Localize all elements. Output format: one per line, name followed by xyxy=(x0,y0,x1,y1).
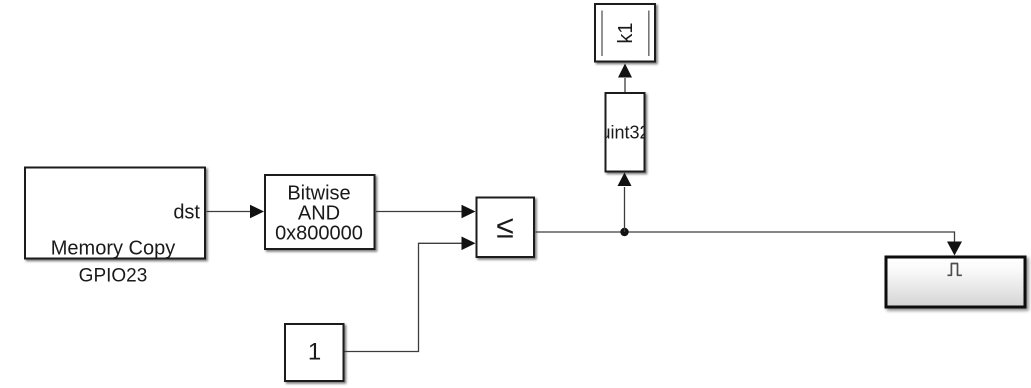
junction dot xyxy=(620,228,628,236)
block goto tag k1 xyxy=(595,4,655,62)
goto bracket right xyxy=(648,11,650,57)
svg-text:k1: k1 xyxy=(615,22,637,43)
arrowhead into Bitwise AND xyxy=(250,205,264,219)
wire uint32 to goto k1 xyxy=(624,78,626,92)
arrowhead into uint32 bottom xyxy=(618,173,632,187)
svg-text:1: 1 xyxy=(308,339,321,366)
block Memory Copy xyxy=(25,168,205,259)
arrowhead into relational operator input 1 xyxy=(462,205,476,219)
block Bitwise AND 0x800000 xyxy=(265,175,375,249)
svg-text:Bitwise: Bitwise xyxy=(287,183,350,205)
wire relational operator output main line xyxy=(536,232,955,242)
block data type conversion uint32 xyxy=(606,93,645,172)
block scope (pulse display) xyxy=(886,257,1025,307)
wire Memory Copy to Bitwise AND xyxy=(207,211,253,213)
svg-text:dst: dst xyxy=(173,202,200,224)
svg-text:0x800000: 0x800000 xyxy=(275,222,363,244)
svg-text:≤: ≤ xyxy=(496,209,514,245)
block relational operator <= xyxy=(477,198,535,258)
svg-text:AND: AND xyxy=(298,202,340,224)
arrowhead into goto k1 bottom xyxy=(618,64,632,78)
arrowhead into scope top xyxy=(947,242,962,256)
arrowhead into relational operator input 2 xyxy=(462,237,476,251)
block constant 1 xyxy=(285,324,344,381)
wire constant 1 to relational operator input 2 xyxy=(345,243,465,351)
svg-text:Memory Copy: Memory Copy xyxy=(51,237,175,259)
wire Bitwise AND to relational operator xyxy=(376,211,464,213)
pulse icon xyxy=(948,264,962,276)
svg-text:GPIO23: GPIO23 xyxy=(79,265,148,286)
wire branch junction up to uint32 xyxy=(624,187,626,232)
goto bracket left xyxy=(601,11,603,57)
svg-text:uint32: uint32 xyxy=(600,123,649,143)
